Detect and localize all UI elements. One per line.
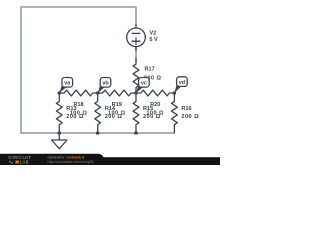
junction dot on ground rail 1 <box>58 131 62 135</box>
resistor R14 (vertical, 200 ohm) <box>95 93 101 133</box>
node vd label box <box>177 77 188 87</box>
node vb label box <box>100 78 111 88</box>
resistor R19 (horizontal, 100 ohm) <box>98 90 136 96</box>
node va label pointer wedge <box>59 84 67 93</box>
wire: top horizontal from left loop to V2 column <box>21 7 136 133</box>
junction dot at node vc <box>134 91 138 95</box>
svg-text:200 Ω: 200 Ω <box>66 114 84 120</box>
svg-text:va: va <box>64 81 71 87</box>
resistor R18 (horizontal, 100 ohm) <box>59 90 97 96</box>
svg-text:http://circuitlab.com/cexq26: http://circuitlab.com/cexq26 <box>48 160 94 164</box>
node va label box <box>62 78 73 88</box>
wire: bottom ground rail <box>21 132 174 134</box>
junction dot at node vb <box>96 91 100 95</box>
junction dot at node vd <box>173 91 177 95</box>
node vc label box <box>139 78 150 88</box>
watermark logo/text pill background <box>0 154 104 168</box>
svg-text:vb: vb <box>102 81 109 87</box>
node vb label pointer wedge <box>98 84 105 93</box>
wire: V2 bottom to R17 top <box>135 47 137 62</box>
svg-text:200 Ω: 200 Ω <box>181 114 199 120</box>
CircuitLab logo <box>8 155 93 164</box>
svg-text:R17: R17 <box>145 67 155 73</box>
svg-text:vd: vd <box>179 80 185 86</box>
svg-text:R16: R16 <box>181 106 191 112</box>
resistor R20 (horizontal, 100 ohm) <box>136 90 174 96</box>
svg-text:200 Ω: 200 Ω <box>143 114 161 120</box>
node vc label pointer wedge <box>136 84 143 93</box>
resistor R13 (vertical, 200 ohm) <box>56 93 62 133</box>
ground symbol <box>52 133 67 149</box>
svg-text:200 Ω: 200 Ω <box>105 114 123 120</box>
svg-text:V2: V2 <box>149 31 156 37</box>
junction dot on ground rail 3 <box>134 131 138 135</box>
svg-text:LAB: LAB <box>20 160 29 165</box>
voltage source V2 5V <box>127 25 146 51</box>
svg-text:R15: R15 <box>143 106 153 112</box>
svg-text:vc: vc <box>141 81 147 87</box>
resistor R16 (vertical, 200 ohm) <box>172 93 178 133</box>
node vd label pointer wedge <box>174 83 181 93</box>
svg-text:5 V: 5 V <box>149 37 158 43</box>
watermark bar <box>0 157 220 165</box>
resistor R17 (vertical, from V2 to node vc) <box>133 59 139 94</box>
resistor R15 (vertical, 200 ohm) <box>133 93 139 133</box>
svg-text:R14: R14 <box>105 106 116 112</box>
svg-text:R13: R13 <box>66 106 76 112</box>
junction dot on ground rail 2 <box>96 131 100 135</box>
junction dot at node va <box>58 91 62 95</box>
